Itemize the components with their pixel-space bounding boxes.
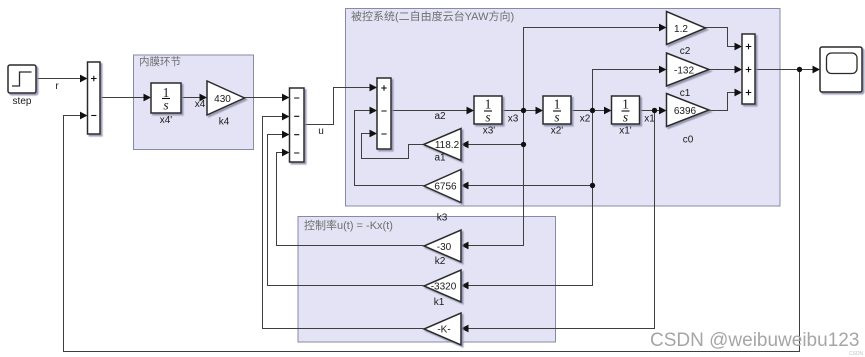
wire tap x2 to gain 6756 [462,185,593,187]
gain k4 430 [207,81,245,115]
svg-text:118.2: 118.2 [435,140,460,151]
wire k4 to Sum2 input1 [245,97,289,99]
wire Sum3 to integrator x3' [391,110,473,112]
svg-text:c0: c0 [683,135,694,146]
gain c0 6396 [667,94,710,127]
svg-text:-132: -132 [674,66,694,77]
integrator x3' [474,96,502,125]
gain c1 -132 [667,53,710,86]
area 内膜环节 [134,55,254,150]
gain k1 -3320 (points left) [424,270,461,302]
svg-text:内膜环节: 内膜环节 [139,55,181,68]
wire gain c0 to Sum4 input3 [709,93,736,111]
arrow into Sum2 input3 [282,131,290,139]
svg-text:被控系统(二自由度云台YAW方向): 被控系统(二自由度云台YAW方向) [351,9,514,23]
wire tap x3 to gain a1 [462,144,524,146]
sum Sum1 [88,62,101,134]
arrow into gain c0 [659,107,667,115]
area 控制率u(t) = -Kx(t) [298,217,556,343]
block step source [8,65,36,93]
wire gain 6756 to Sum3 input2 [355,111,424,186]
svg-text:a1: a1 [434,153,446,164]
svg-text:x2: x2 [580,114,591,125]
node output y [797,67,802,72]
arrow into gain k2 [461,242,469,250]
svg-text:x3: x3 [508,114,519,125]
arrow into gain a1 [461,141,469,149]
wire x4' to gain k4 [181,97,206,99]
wire gain k1 to Sum2 input3 [268,135,424,286]
wire node x2 riser up to gain c1 [593,70,666,111]
gain c2 1.2 [667,12,706,45]
svg-text:CSDN: CSDN [849,351,864,357]
arrow into Sum4 input2 [735,66,743,74]
svg-text:r: r [55,81,59,92]
svg-text:CSDN @weibuweibu123: CSDN @weibuweibu123 [650,330,859,351]
node x2 tap 6756 [590,183,595,188]
integrator x4' [151,83,181,113]
arrow into gain k1 [461,282,469,290]
sum Sum2 (4 minus inputs) [290,88,305,162]
wire x2' to x1' [571,110,611,112]
gain a1 118.2 (points left) [424,129,462,161]
scope block [820,47,862,92]
area 被控系统(二自由度云台YAW方向) [346,9,781,207]
arrow into Sum2 input1 [282,94,290,102]
wire gain a1 to Sum3 input3 [362,134,424,159]
svg-text:s: s [163,98,168,113]
svg-text:a2: a2 [434,111,446,122]
node x1 [652,108,657,113]
svg-text:k2: k2 [435,256,446,267]
svg-text:x2': x2' [551,126,564,137]
svg-text:c1: c1 [680,88,691,99]
sum Sum3 (+ - -) [377,78,391,149]
node x2 [590,108,595,113]
arrow into gain c2 [659,24,667,32]
sum Sum4 (+ + +) [742,34,755,104]
svg-text:-K-: -K- [437,325,450,336]
svg-text:k4: k4 [219,117,230,128]
svg-text:x4': x4' [160,115,173,126]
wire x1' to gain c0 [640,110,666,112]
wire step to Sum1 [36,78,86,80]
svg-text:-30: -30 [437,242,452,253]
svg-text:1.2: 1.2 [674,24,688,35]
wire gain k2 to Sum2 input4 [277,153,424,246]
arrow into Sum4 input1 [735,43,743,51]
svg-text:控制率u(t) = -Kx(t): 控制率u(t) = -Kx(t) [304,218,393,232]
wire output feedback: node down, bottom run, up to Sum1 minus [64,70,800,352]
wire Sum4 to scope [755,69,813,71]
arrow into integrator x4' [144,94,152,102]
arrow into Sum4 input3 [735,89,743,97]
arrow into Sum3 input3 [370,130,378,138]
wire node x3 riser up to gain c2 [524,28,666,111]
arrows [80,24,820,333]
svg-text:s: s [554,110,559,125]
arrow into integrator x2' [536,107,544,115]
svg-text:x1: x1 [644,114,655,125]
integrator x1' [612,96,640,125]
arrow into integrator x3' [467,107,475,115]
arrow into gain k4 [200,94,208,102]
arrow into Sum3 input2 [370,107,378,115]
arrow into gain -K- [461,325,469,333]
wire u: Sum2 output up to Sum3 input1 [304,88,376,125]
wire gain c1 to Sum4 input2 [709,69,736,71]
svg-text:430: 430 [214,94,231,105]
svg-text:k1: k1 [434,297,445,308]
wire Sum1 to integrator x4' [100,97,150,99]
svg-text:6756: 6756 [434,182,457,193]
wire node x3 riser down to gain k2 [462,111,524,246]
arrow into scope [813,66,821,74]
svg-text:k3: k3 [437,213,448,224]
arrow into Sum1 plus [80,75,88,83]
svg-text:step: step [13,96,32,107]
arrow into Sum1 minus [80,112,88,120]
svg-text:-3320: -3320 [431,282,457,293]
integrator x2' [543,96,571,125]
arrow into gain c1 [659,66,667,74]
svg-text:c2: c2 [680,46,691,57]
svg-text:s: s [485,110,490,125]
wire gain c2 to Sum4 input1 [706,28,737,47]
arrow into Sum2 input4 [282,149,290,157]
arrow into integrator x1' [604,107,612,115]
gain k3 6756 (points left) [424,170,461,203]
svg-text:6396: 6396 [674,106,697,117]
arrow into Sum3 input1 [370,84,378,92]
node x3 [521,108,526,113]
junction dots [521,67,802,188]
arrow into Sum2 input2 [282,113,290,121]
arrow into gain 6756 [461,182,469,190]
svg-text:x1': x1' [619,126,632,137]
wire x3' to x2' [502,110,542,112]
svg-text:s: s [623,110,628,125]
svg-text:u: u [318,126,324,137]
node x3 tap a1 [521,142,526,147]
wire gain -K- to Sum2 input2 [263,117,424,329]
gain k2 -30 (points left) [424,230,461,262]
wire node x1 riser down to gain -K- [462,111,655,329]
gain k0 -K- (points left) [424,313,461,345]
wire node x2 riser down to gain k1 [462,111,593,286]
svg-text:x3': x3' [483,126,496,137]
svg-text:x4: x4 [195,99,206,110]
